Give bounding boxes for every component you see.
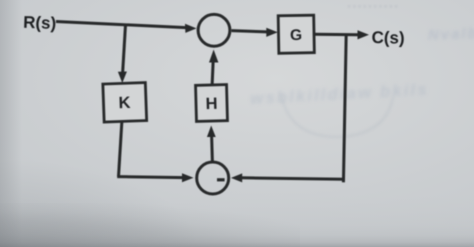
minus sign in sum2 [217, 178, 225, 181]
wire bottom left horizontal into sum2 [117, 177, 184, 178]
watermark arc [281, 95, 393, 137]
wire branch down from output [344, 34, 347, 180]
wire R(s) to summing junction 1 [56, 22, 186, 28]
wire bottom right horizontal into sum2 [241, 178, 345, 179]
wire G to C(s) [314, 33, 359, 37]
svg-text:R(s): R(s) [23, 13, 57, 33]
block G [278, 15, 314, 53]
block K [103, 83, 147, 122]
arrowhead into K [118, 72, 127, 84]
wire K down [119, 121, 122, 177]
svg-text:H: H [205, 95, 217, 113]
wire stub below corner [342, 179, 345, 182]
block H [196, 85, 228, 122]
svg-text:C(s): C(s) [371, 28, 404, 48]
summing junction 1 [198, 14, 230, 46]
wire H up to sum1 [212, 60, 213, 86]
arrowhead into sum2 from right [231, 173, 242, 182]
svg-text:K: K [118, 94, 131, 112]
arrowhead into sum1 from below [209, 50, 218, 63]
wire branch down to K [123, 25, 126, 74]
wire sum1 to G [232, 31, 268, 32]
arrowhead into H from below [207, 126, 216, 138]
arrowhead into sum1 [185, 24, 197, 33]
arrowhead into G [266, 28, 278, 37]
wire sum2 up to H [210, 135, 214, 162]
arrowhead before C(s) [358, 30, 370, 39]
summing junction 2 [197, 162, 229, 194]
arrowhead into sum2 from left [182, 173, 194, 182]
svg-text:G: G [290, 27, 302, 44]
